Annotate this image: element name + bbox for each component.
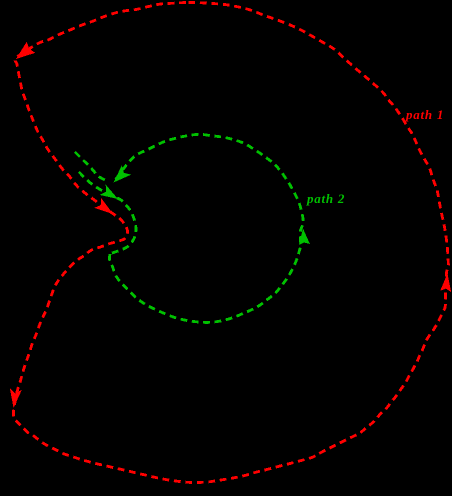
svg-text:path 2: path 2 (306, 191, 345, 206)
wire green corridor strand A (75, 152, 105, 180)
wire green hairpin around cusp (110, 198, 136, 254)
wire green corridor strand B (79, 172, 114, 197)
node red arrow top-left (10, 42, 451, 408)
svg-text:path 1: path 1 (405, 107, 444, 122)
node red arrow right side (440, 274, 451, 293)
node red arrow bottom-left (10, 388, 22, 408)
node green arrow right side (299, 229, 310, 245)
node green arrow 1 (114, 165, 132, 182)
wire path 2 (green dashed circle with notch) (75, 134, 303, 322)
node red arrow into cusp (94, 198, 113, 214)
node green arrow 2 (100, 185, 119, 199)
